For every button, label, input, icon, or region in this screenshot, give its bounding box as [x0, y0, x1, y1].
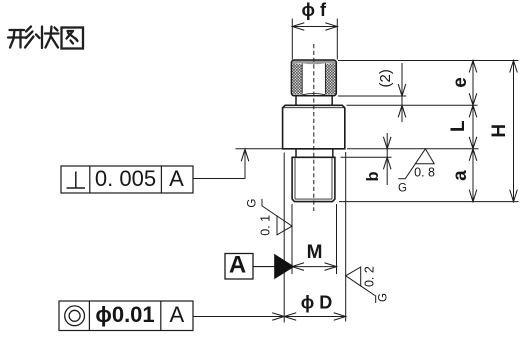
dimension phi D line with leader from concentricity frame: [193, 316, 346, 318]
svg-text:G: G: [247, 199, 259, 208]
svg-text:(2): (2): [377, 69, 394, 87]
svg-text:0. 8: 0. 8: [414, 165, 435, 179]
title text 形状图: [8, 27, 83, 49]
neck left edge: [295, 96, 297, 106]
H arrow top: [510, 61, 518, 73]
extension line top of thread y158: [341, 156, 392, 158]
phi D arrow left: [284, 313, 296, 321]
svg-text:G: G: [378, 293, 390, 302]
neck right edge: [331, 96, 333, 106]
knurl center highlight boundary left: [301, 63, 303, 93]
svg-text:0. 005: 0. 005: [95, 166, 156, 191]
(2) arrow upper: [398, 84, 406, 96]
undercut right edge: [332, 149, 334, 158]
dimension M extension line left: [291, 204, 293, 274]
svg-text:A: A: [229, 252, 246, 279]
H arrow bottom: [510, 190, 518, 202]
concentricity symbol circles: [65, 306, 85, 326]
svg-text:G: G: [398, 183, 407, 195]
dimension phi f line: [292, 26, 337, 28]
svg-text:ϕ D: ϕ D: [301, 292, 333, 312]
dimension chain line e L a: [472, 61, 474, 202]
dimension phi f extension line right: [336, 19, 338, 60]
extension line bottom of collar y149 right: [347, 148, 479, 150]
thread outline: [292, 157, 335, 201]
knurl right hatch band: [325, 64, 335, 95]
dimension phi D extension line left: [283, 153, 285, 323]
knurl grey top chamfer band: [291, 60, 336, 64]
L arrow bottom: [469, 137, 477, 149]
knurl outline: [291, 60, 336, 96]
collar top chamfer line: [283, 107, 344, 109]
knurl left hatch band: [292, 64, 302, 95]
undercut left edge: [295, 149, 297, 158]
datum A filled triangle: [274, 254, 294, 279]
dimension M line: [292, 266, 337, 268]
dimension phi D extension line right: [345, 152, 347, 322]
datum A connector line: [253, 266, 275, 268]
phi f arrow right: [325, 23, 337, 31]
svg-text:A: A: [169, 302, 184, 327]
dimension (2) line: [401, 63, 403, 122]
svg-text:L: L: [448, 120, 469, 132]
e arrow top: [469, 61, 477, 73]
extension line bottom of collar y149 left: [236, 148, 283, 150]
centerline: [313, 44, 315, 211]
thread bottom chamfer line: [295, 198, 332, 200]
knurl center highlight boundary right: [324, 63, 326, 93]
extension line bottom of thread y201: [339, 201, 519, 203]
svg-text:A: A: [169, 166, 184, 191]
M arrow right: [325, 263, 337, 271]
svg-text:M: M: [307, 242, 323, 263]
perpendicularity leader line: [193, 150, 245, 179]
phi D leader arrow pointing right: [272, 313, 284, 321]
extension line bottom of knurl y96: [338, 95, 406, 97]
extension line top of collar y106: [347, 104, 478, 106]
dimension M extension line right: [336, 204, 338, 274]
dimension H line: [513, 61, 515, 202]
thread root line right: [331, 157, 333, 199]
phi f arrow left: [292, 23, 304, 31]
collar body outline: [283, 105, 345, 149]
extension line top of head y58: [338, 60, 519, 62]
feature control frame perpendicularity 0.005 A: [61, 166, 193, 193]
perpendicularity leader arrow: [241, 149, 249, 161]
(2) arrow lower: [398, 105, 406, 117]
knurl bottom arc: [302, 94, 325, 95]
surface finish 0.8 symbol (on collar bottom face line): [398, 149, 434, 179]
svg-text:ϕ0.01: ϕ0.01: [95, 302, 154, 327]
dimension phi f extension line left: [291, 19, 293, 60]
datum A box: [225, 254, 253, 280]
svg-text:0. 1: 0. 1: [258, 215, 272, 236]
L arrow top: [469, 105, 477, 117]
svg-text:ϕ f: ϕ f: [302, 0, 327, 20]
M arrow left: [292, 263, 304, 271]
svg-text:b: b: [364, 171, 382, 181]
svg-text:H: H: [489, 124, 510, 138]
dimension b line: [386, 133, 388, 185]
svg-text:e: e: [450, 77, 471, 88]
surface finish 0.1 symbol (on thread, pointing right): [262, 199, 292, 235]
perpendicularity symbol: [67, 172, 86, 189]
e arrow bottom: [469, 93, 477, 105]
thread root line left: [294, 157, 296, 199]
svg-text:0. 2: 0. 2: [362, 266, 376, 287]
a arrow bottom: [469, 190, 477, 202]
a arrow top: [469, 149, 477, 161]
b arrow upper: [383, 137, 391, 149]
surface finish 0.2 symbol (on phi D extension, pointing left): [346, 267, 376, 303]
svg-text:a: a: [450, 170, 471, 181]
b arrow lower: [383, 157, 391, 169]
feature control frame concentricity phi0.01 A: [59, 301, 193, 331]
phi D arrow right: [334, 313, 346, 321]
